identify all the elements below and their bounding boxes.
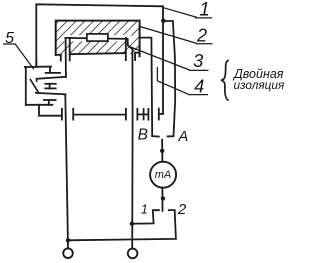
svg-text:1: 1 (199, 0, 210, 20)
svg-text:изоляция: изоляция (234, 78, 285, 92)
svg-text:3: 3 (193, 51, 203, 71)
svg-text:В: В (138, 126, 148, 143)
svg-text:А: А (177, 129, 188, 145)
svg-text:4: 4 (194, 76, 204, 96)
svg-text:5: 5 (5, 30, 14, 47)
svg-text:mA: mA (155, 169, 172, 181)
svg-text:2: 2 (196, 25, 207, 45)
svg-text:2: 2 (177, 201, 187, 218)
svg-text:1: 1 (141, 202, 148, 216)
